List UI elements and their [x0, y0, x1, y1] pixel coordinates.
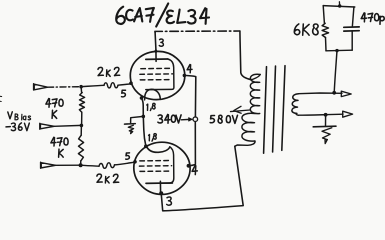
transformer T1 secondary winding [292, 94, 299, 116]
tube V1 beam plate right [146, 59, 174, 90]
tube V2 grids (dashed) [139, 161, 171, 172]
transformer T1 core [264, 66, 285, 154]
output arrow (cold) [343, 111, 353, 117]
tube V2 envelope (lower 6CA7/EL34) [134, 142, 190, 194]
label 6K8 [294, 24, 318, 35]
node (junction bottom input / 470K) [79, 163, 83, 167]
tube V2 cathode dome (top) [146, 146, 170, 152]
label -36V [6, 123, 29, 131]
pin 4 label upper [187, 65, 192, 73]
pin 3 dot upper [154, 50, 157, 53]
pin 5 label lower [126, 153, 130, 159]
transformer T1 primary winding [235, 74, 260, 146]
ground symbol (cathode) [125, 124, 136, 134]
wire (top rail dash-dot) [155, 31, 240, 32]
pin 1,8 label lower [149, 134, 157, 142]
label 470K upper [46, 99, 63, 119]
scan speck left edge [0, 96, 2, 101]
tube V1 anode plate [146, 49, 168, 61]
label 580V [210, 115, 237, 123]
node (bias rail junction) [80, 124, 84, 128]
pin 5 label upper [122, 90, 126, 97]
pin 3 label upper [159, 39, 163, 46]
title label 6CA7/EL34 [116, 4, 209, 27]
tube V2 beam plate right [146, 147, 174, 184]
arrow 340V (to screen terminal) [181, 118, 192, 122]
node (feedback bottom) [335, 49, 338, 52]
wire (feedback bottom rail) [326, 49, 352, 52]
wire (rail down to primary) [240, 31, 252, 80]
resistor 2K2 (lower grid stopper) [81, 162, 135, 168]
wire (lower anode to primary bottom) [161, 146, 243, 211]
wire (top node down) [80, 87, 83, 93]
wire (feedback down to output) [334, 51, 337, 93]
wire (bias input to node) [54, 124, 81, 127]
tube V1 cathode dome [145, 89, 161, 100]
wire (cathodes common) [141, 98, 146, 146]
resistor 2K2 (upper grid stopper) [81, 83, 131, 88]
pin 5 dot lower tube [133, 160, 137, 164]
tube V2 anode plate [146, 181, 172, 193]
wire (bottom input to node) [56, 164, 81, 166]
input terminal arrow (bottom grid drive) [41, 162, 56, 168]
wire (top input to grid node, dash-dot) [48, 86, 81, 89]
pin 1,8 label upper [147, 103, 155, 110]
pin 5 dot upper tube [129, 81, 133, 85]
output arrow (hot) [341, 91, 351, 96]
pin 1,8 dot upper [140, 96, 143, 99]
label 340V [158, 115, 181, 124]
tube V1 grids (dashed) [140, 68, 173, 80]
label 2K2 lower [97, 174, 119, 183]
wire (secondary bottom to output) [299, 114, 343, 115]
node (cathode ground tap) [142, 115, 146, 119]
pin 1,8 dot lower [144, 144, 148, 148]
tube V1 envelope (upper 6CA7/EL34) [130, 51, 185, 99]
ground symbol (output) [313, 126, 336, 143]
pin 4 dot lower [187, 164, 191, 168]
wire (470K upper to bias node) [81, 112, 83, 125]
label 2K2 upper [98, 67, 120, 76]
wire (secondary top to output) [299, 92, 343, 95]
input terminal arrow (bias -36V) [40, 123, 54, 129]
pin 3 dot lower [159, 191, 163, 195]
wire (upper anode to rail) [154, 32, 157, 49]
wire (screens common, pin4 to pin4) [184, 75, 195, 165]
wire (feedback top rail) [323, 6, 355, 7]
terminal circle 340V [193, 117, 198, 122]
pin 3 label lower [167, 197, 172, 205]
wire (to ground) [131, 116, 144, 122]
node (feedback top) [338, 2, 341, 8]
pin 4 dot upper [183, 74, 187, 78]
node (feedback tap) [332, 91, 336, 95]
label V-Bias [8, 112, 31, 120]
resistor 470K (upper) [79, 93, 84, 113]
resistor 6K8 (feedback) [322, 6, 329, 51]
arrow 580V (primary centre tap) [231, 106, 250, 113]
pin 4 label lower [192, 166, 197, 175]
label 470p [361, 13, 384, 24]
resistor 470K (lower) [78, 125, 83, 165]
label 470K lower [51, 137, 68, 157]
capacitor 470p (feedback) [344, 7, 359, 50]
node (secondary cold junction) [324, 113, 328, 117]
wire (cold to ground) [325, 115, 327, 126]
node (junction top input / 470K) [79, 85, 83, 89]
input terminal arrow (top grid drive) [34, 84, 48, 90]
